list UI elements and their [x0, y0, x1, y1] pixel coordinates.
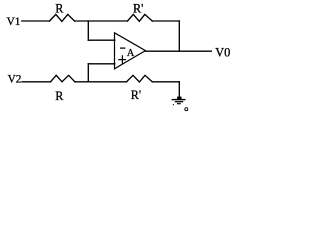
- ground bar 1: [172, 99, 185, 101]
- svg-text:R: R: [55, 2, 64, 16]
- resistor R' (bottom): [127, 75, 153, 82]
- svg-text:A: A: [127, 48, 135, 59]
- resistor R (bottom): [51, 75, 75, 82]
- wire to inverting input: [88, 39, 115, 41]
- svg-text:V2: V2: [8, 73, 22, 85]
- ground bar 2: [176, 101, 183, 103]
- wire R' to ground: [152, 81, 179, 83]
- node junction non-inverting input: [87, 64, 89, 82]
- svg-text:V0: V0: [215, 45, 230, 59]
- wire V1 to R: [22, 20, 50, 22]
- ground junction blob: [177, 97, 181, 100]
- svg-text:R: R: [55, 89, 64, 103]
- node junction inverting input: [87, 21, 89, 40]
- ground stray dot: [173, 104, 174, 105]
- wire R' to feedback corner: [152, 20, 179, 22]
- op-amp minus sign: [121, 47, 125, 49]
- ground stem: [178, 82, 180, 99]
- op-amp U1 triangle: [115, 33, 146, 69]
- ground reference label o: [185, 108, 188, 111]
- ground bar 3: [178, 103, 181, 105]
- wire feedback vertical down to output node: [178, 21, 180, 51]
- wire V2 to R: [22, 81, 51, 83]
- wire op-amp output to V0: [145, 50, 211, 52]
- wire to non-inverting input: [88, 63, 115, 65]
- svg-text:V1: V1: [7, 16, 21, 28]
- op-amp plus sign: [119, 56, 126, 63]
- wire R to R': [75, 20, 128, 22]
- wire R to R' (bottom): [75, 81, 127, 83]
- svg-text:R': R': [133, 2, 143, 16]
- resistor R (top): [50, 14, 75, 21]
- resistor R' (top, feedback): [128, 14, 153, 21]
- svg-text:R': R': [131, 88, 141, 102]
